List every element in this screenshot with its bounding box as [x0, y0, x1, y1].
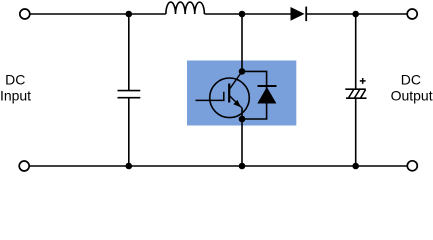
capacitor C2 electrolytic: [345, 78, 366, 98]
wire right branch upper: [355, 14, 357, 89]
wire left branch lower: [128, 98, 130, 166]
node collector: [239, 68, 246, 75]
wire left branch upper: [128, 14, 130, 90]
op-amp: none; transistor Q1 IGBT: [196, 72, 250, 118]
wire right branch lower: [355, 98, 357, 166]
node junction top right: [352, 11, 359, 18]
terminal top right: [407, 9, 417, 19]
node emitter: [239, 116, 246, 123]
svg-text:DC: DC: [401, 72, 421, 88]
terminal bottom right: [407, 161, 417, 171]
capacitor C1: [118, 91, 141, 98]
diode D2 freewheel: [257, 86, 276, 104]
terminal bottom left: [19, 161, 29, 171]
svg-text:Output: Output: [391, 88, 433, 104]
wire middle branch upper: [241, 14, 243, 71]
wire top rail mid segment: [204, 13, 291, 15]
node junction bottom right: [352, 163, 359, 170]
node junction top left: [126, 11, 133, 18]
inductor L1: [166, 2, 204, 14]
wire top rail right segment: [306, 13, 407, 15]
svg-text:DC: DC: [5, 72, 25, 88]
diode D1: [291, 7, 307, 22]
node DC Output label: [391, 72, 433, 104]
IGBT highlight box: [187, 61, 296, 126]
node junction top mid: [239, 11, 246, 18]
terminal top left: [20, 9, 30, 19]
wire freewheel loop: [242, 71, 267, 119]
svg-text:Input: Input: [0, 88, 31, 104]
wire bottom rail: [29, 165, 407, 167]
wire top rail left segment: [30, 13, 166, 15]
node junction bottom left: [126, 163, 133, 170]
wire middle branch lower: [241, 108, 243, 167]
node DC Input label: [0, 72, 31, 104]
node junction bottom mid: [239, 163, 246, 170]
